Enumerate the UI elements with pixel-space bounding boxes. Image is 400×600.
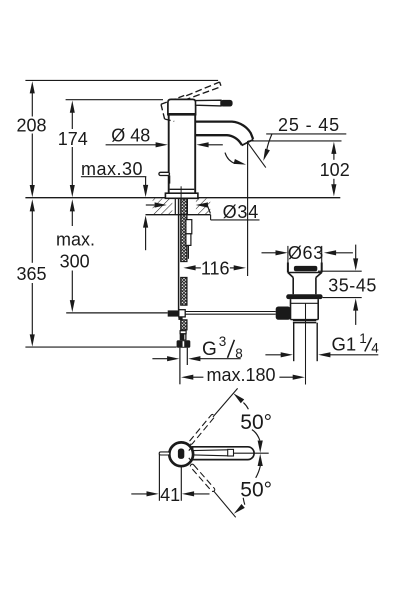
svg-text:50°: 50°: [240, 478, 272, 501]
wire: [247, 141, 249, 276]
node 3545-dim: [318, 270, 362, 272]
wire: [66, 99, 163, 101]
node 365-dim: [30, 199, 35, 211]
svg-text:1: 1: [359, 331, 367, 346]
node cap: [168, 99, 196, 114]
wire centerline: [305, 304, 307, 385]
node g38-nut: [180, 331, 186, 334]
node body: [168, 114, 170, 193]
node supply-pipe: [179, 348, 181, 385]
svg-text:3: 3: [219, 334, 227, 349]
node base: [170, 188, 195, 190]
svg-text:25 - 45: 25 - 45: [278, 115, 340, 135]
node body-top: [169, 442, 193, 466]
node lever: [196, 100, 221, 106]
node spout: [195, 122, 253, 140]
svg-text:365: 365: [16, 264, 46, 284]
svg-text:Ø 48: Ø 48: [111, 125, 150, 145]
node max180-dim: [181, 375, 193, 380]
node arc-up: [233, 393, 244, 403]
node g114-label: [265, 354, 281, 356]
svg-text:Ø63: Ø63: [288, 243, 324, 263]
svg-text:41: 41: [160, 485, 180, 505]
node 102-dim: [331, 142, 336, 154]
node swivel-arrow: [225, 153, 235, 164]
node lever-top: [193, 447, 255, 460]
wire centerline ticks: [189, 447, 192, 450]
node d34-dim: [146, 204, 155, 206]
node drain-knob: [276, 307, 291, 320]
node 208-dim: [30, 81, 35, 93]
node phantom-cap: [161, 95, 186, 104]
node pull-rod: [178, 199, 180, 310]
svg-text:208: 208: [16, 115, 46, 135]
svg-text:116: 116: [201, 258, 230, 278]
svg-text:Ø34: Ø34: [223, 202, 259, 222]
node drain-seal: [286, 294, 322, 299]
svg-text:max.180: max.180: [206, 365, 275, 385]
node hose2: [186, 220, 192, 234]
node drain-body: [290, 299, 292, 320]
node drain-top: [287, 246, 289, 263]
svg-text:174: 174: [58, 129, 88, 149]
svg-text:8: 8: [235, 346, 243, 361]
wire: [25, 79, 218, 81]
node g38-label: [152, 358, 167, 360]
svg-text:max.: max.: [56, 229, 95, 249]
node rod-top: [159, 452, 170, 455]
svg-text:50°: 50°: [240, 411, 272, 434]
wire stream: [247, 142, 265, 167]
node 174-dim: [70, 101, 75, 113]
svg-text:300: 300: [60, 251, 90, 271]
svg-text:35-45: 35-45: [328, 276, 377, 296]
node linkage: [66, 312, 168, 314]
node d63-dim: [262, 252, 276, 254]
node tailpipe: [293, 323, 295, 362]
node 41-dim: [158, 454, 160, 501]
node 116-dim: [183, 265, 195, 270]
node phantom-lever: [186, 82, 219, 96]
node phantom-down: [190, 463, 216, 492]
node deck: [25, 197, 340, 199]
node rod-knob: [159, 172, 170, 175]
wire: [25, 346, 176, 348]
node phantom-up: [188, 414, 215, 445]
node shank: [174, 198, 176, 215]
svg-text:102: 102: [320, 160, 350, 180]
node drain-steps: [293, 320, 316, 322]
wire: [248, 140, 341, 142]
svg-text:G1: G1: [332, 334, 357, 355]
wire: [234, 452, 269, 454]
node arc-down: [258, 454, 263, 466]
svg-text:4: 4: [371, 341, 379, 356]
svg-text:G: G: [202, 339, 217, 360]
node hose: [181, 199, 187, 262]
node max300-dim: [70, 199, 75, 211]
